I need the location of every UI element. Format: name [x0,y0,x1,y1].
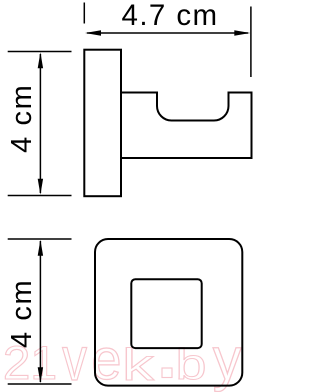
svg-text:4 cm: 4 cm [6,279,38,348]
svg-text:4.7 cm: 4.7 cm [122,0,219,32]
svg-text:k: k [122,339,154,389]
svg-text:v: v [62,325,87,392]
svg-text:4 cm: 4 cm [6,84,38,153]
